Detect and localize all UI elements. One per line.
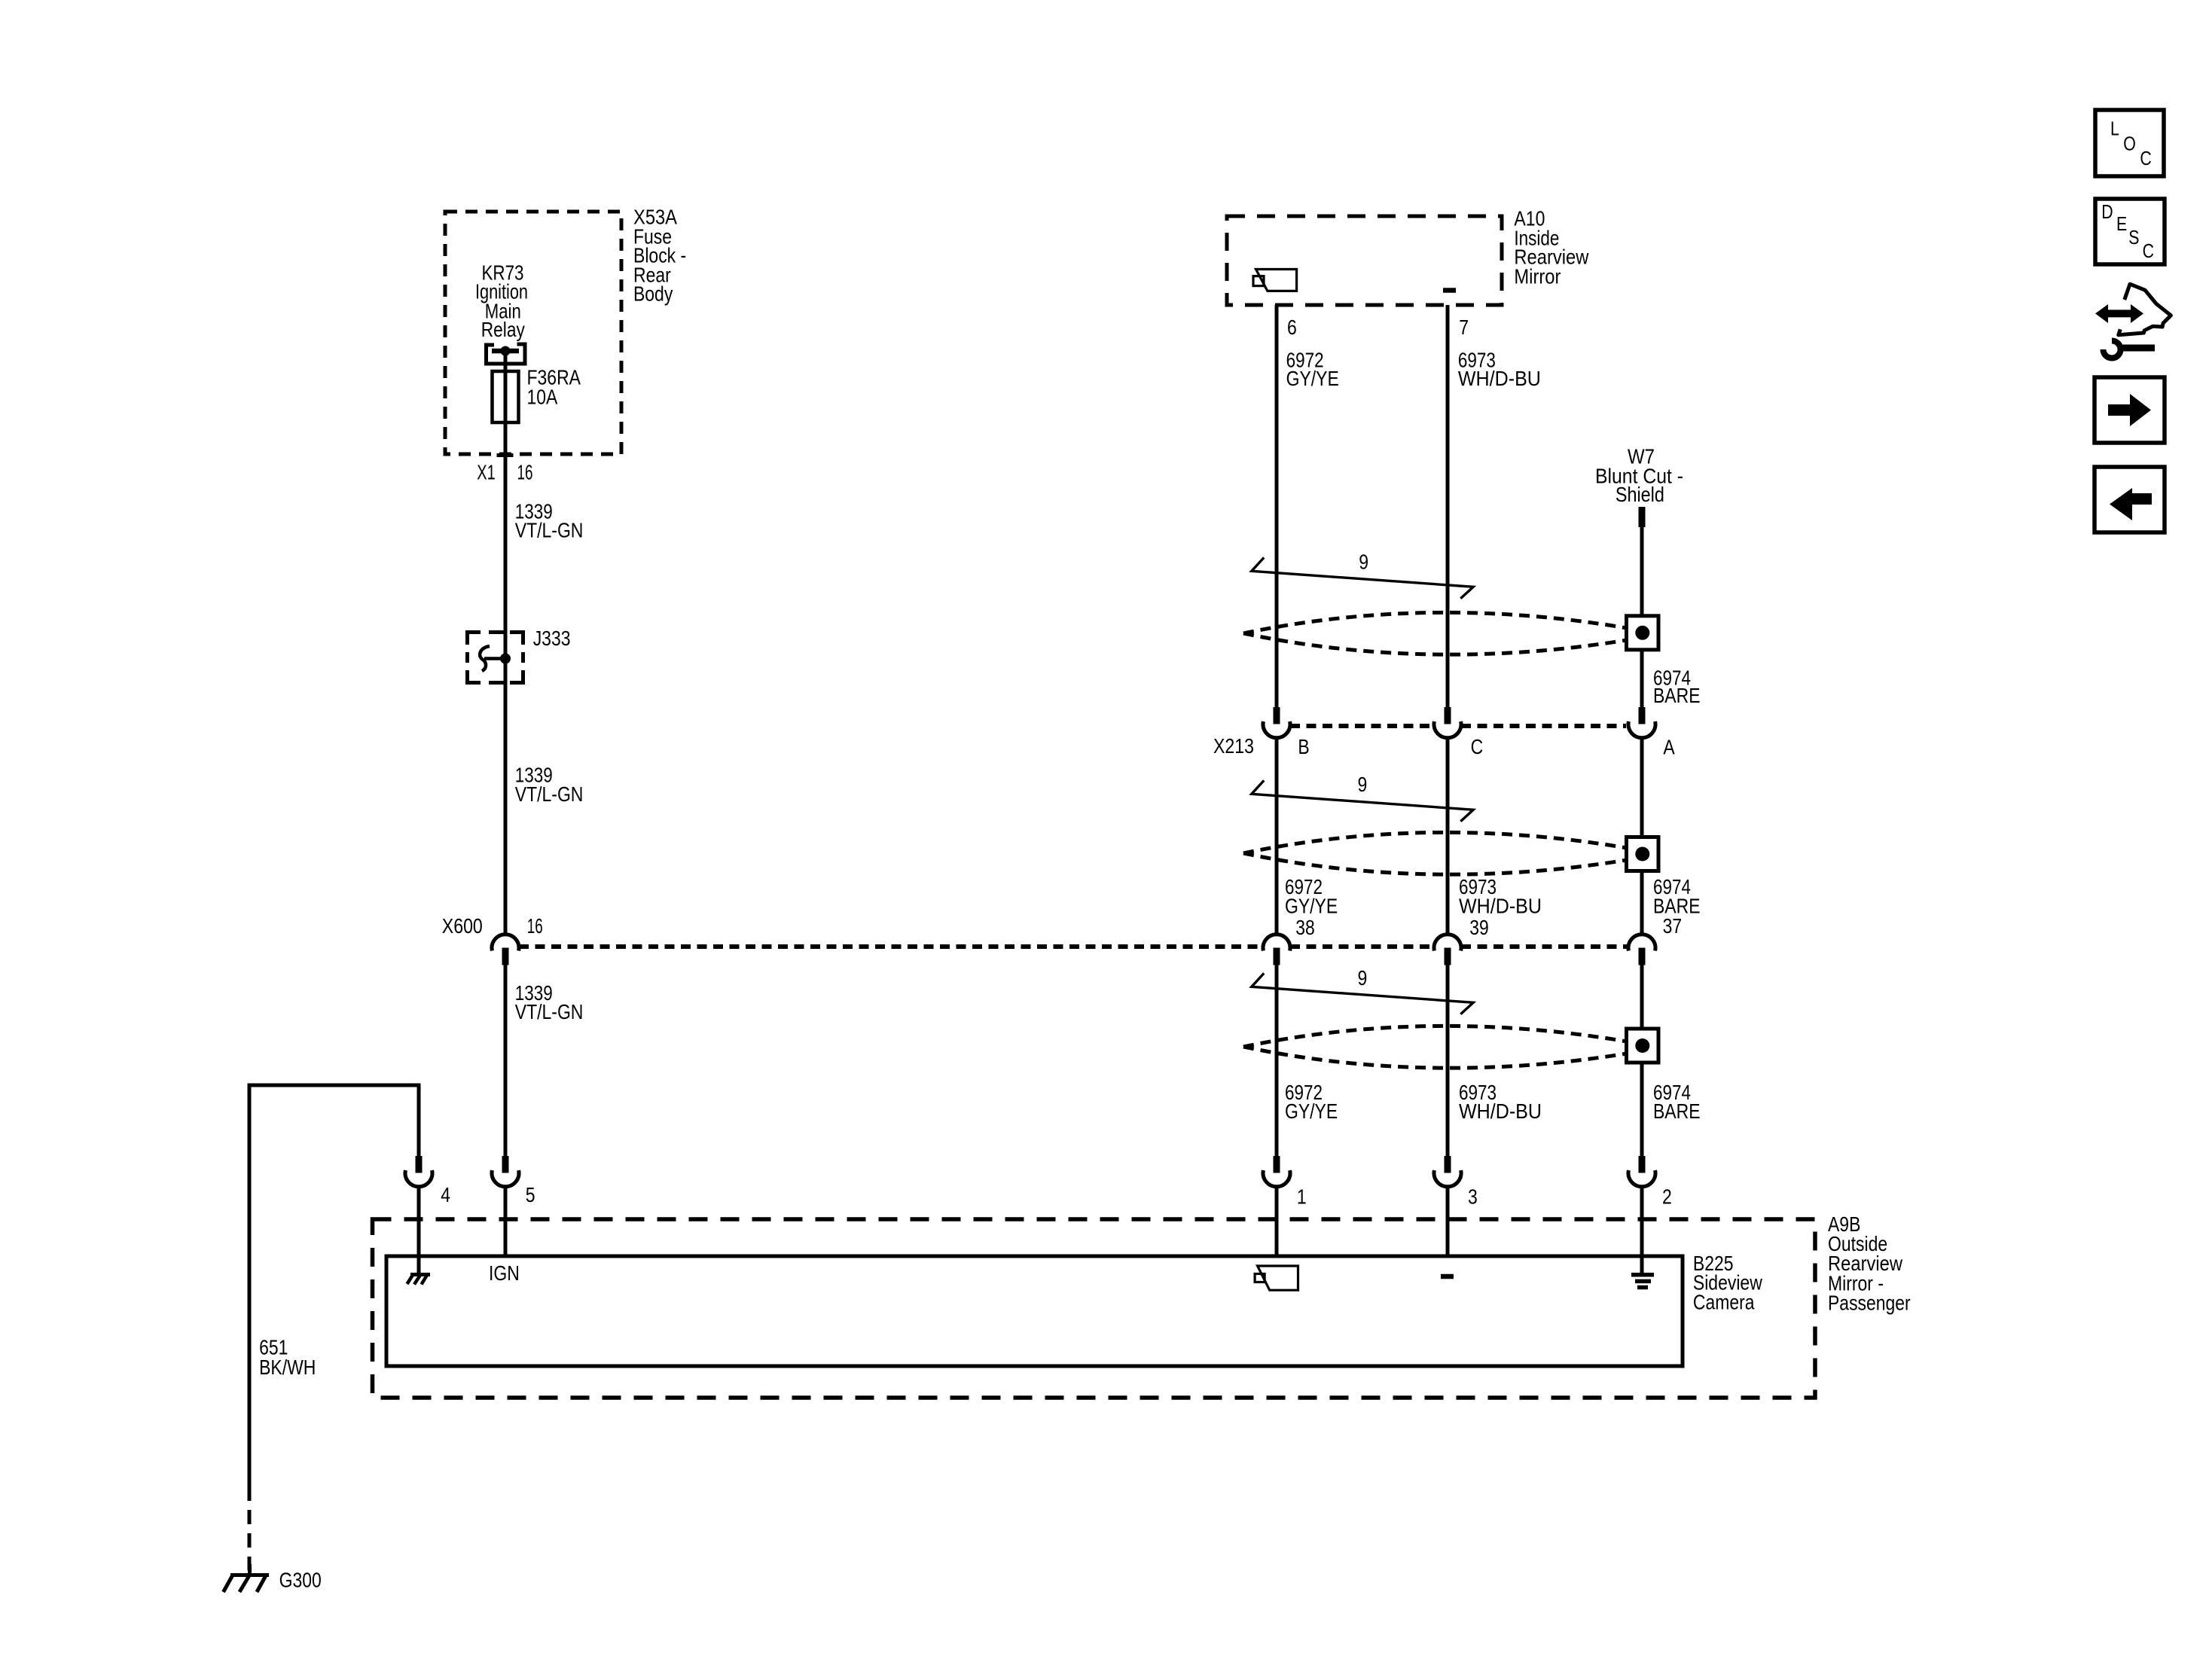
connector X213 pin C	[1434, 707, 1461, 738]
connector pin 1	[1263, 1156, 1290, 1187]
svg-text:1: 1	[1297, 1185, 1307, 1209]
label pin B	[1298, 735, 1309, 758]
svg-text:39: 39	[1469, 916, 1489, 939]
label pin 38	[1295, 916, 1315, 939]
wire pin 3 into B225 minus	[1446, 1188, 1450, 1256]
label twist 9 (bottom)	[1358, 966, 1368, 990]
wire pin 5 into B225 IGN	[504, 1188, 508, 1256]
wire 6973 between X600 and connector 3	[1446, 965, 1450, 1157]
wire 1339 from J333 to X600	[504, 658, 508, 934]
label circuit 6973 WH/D-BU (top)	[1458, 348, 1541, 389]
wire 6972 between X600 and connector 1	[1275, 965, 1279, 1157]
label X1 16	[477, 460, 532, 483]
label pin 39	[1469, 916, 1489, 939]
splice J333 symbol	[480, 646, 511, 671]
chassis ground icon at pin 4	[407, 1275, 431, 1285]
svg-text:X1: X1	[477, 460, 496, 483]
module A10 Inside Rearview Mirror dashed box	[1227, 216, 1502, 305]
svg-text:5: 5	[526, 1183, 535, 1206]
sidebar LOC box	[2095, 110, 2164, 176]
svg-text:VT/L-GN: VT/L-GN	[515, 782, 584, 806]
sidebar next-page arrow box	[2095, 377, 2165, 443]
connector pin 3	[1434, 1156, 1461, 1187]
label B225 Sideview Camera	[1693, 1252, 1763, 1314]
svg-text:S: S	[2128, 226, 2139, 249]
wire 651 BK/WH run from ground to connector 4	[249, 1085, 419, 1487]
connector pin 5	[492, 1156, 519, 1187]
label twist 9 (top)	[1359, 550, 1368, 573]
connector X213 pin B	[1263, 707, 1290, 738]
sidebar DESC box	[2095, 199, 2165, 264]
svg-text:B: B	[1298, 735, 1309, 758]
svg-text:9: 9	[1359, 550, 1368, 573]
svg-text:C: C	[2140, 147, 2151, 169]
svg-text:WH/D-BU: WH/D-BU	[1459, 1099, 1542, 1123]
shield ellipse (middle)	[1243, 832, 1631, 874]
label circuit 6974 BARE (middle)	[1653, 875, 1701, 917]
dashed harness line X600	[519, 944, 1628, 949]
svg-text:IGN: IGN	[489, 1261, 520, 1285]
svg-text:GY/YE: GY/YE	[1285, 1099, 1338, 1123]
label A9B Outside Rearview Mirror - Passenger	[1828, 1212, 1911, 1315]
wire pin 4 into B225 ground	[417, 1188, 421, 1273]
label A10 Inside Rearview Mirror	[1514, 207, 1589, 288]
wire 6973 between X213 and X600	[1446, 739, 1450, 934]
svg-text:X213: X213	[1213, 734, 1254, 758]
label circuit 6973 WH/D-BU (bottom)	[1459, 1081, 1542, 1123]
label pin C	[1471, 735, 1484, 758]
module A9B Outside Rearview Mirror dashed box	[373, 1219, 1816, 1398]
svg-text:Mirror: Mirror	[1514, 264, 1561, 288]
camera icon in A10	[1253, 270, 1297, 291]
wire 1339 from X600 to connector 5	[504, 965, 508, 1157]
shield ellipse (top)	[1243, 612, 1631, 654]
svg-text:9: 9	[1358, 773, 1368, 796]
shield drain connection square (bottom)	[1627, 1029, 1659, 1063]
label G300	[279, 1568, 322, 1591]
shield drain connection square (middle)	[1627, 837, 1659, 871]
svg-text:E: E	[2116, 212, 2127, 235]
twisted pair symbol (bottom)	[1252, 973, 1473, 1014]
wire 6974 between X600 and connector 2	[1640, 965, 1644, 1157]
label pin 2	[1662, 1185, 1672, 1209]
connector pin 2	[1628, 1156, 1655, 1187]
svg-text:16: 16	[517, 460, 533, 483]
minus terminal in A10	[1443, 288, 1456, 293]
wire 6974 between X213 and X600	[1640, 739, 1644, 934]
connector X600 pin 38	[1263, 935, 1290, 965]
svg-text:O: O	[2123, 133, 2136, 155]
svg-text:WH/D-BU: WH/D-BU	[1458, 367, 1541, 390]
svg-text:X600: X600	[442, 914, 483, 938]
wire 6973 WH/D-BU from A10 pin 7 to X213	[1446, 305, 1450, 708]
component B225 Sideview Camera box	[386, 1256, 1683, 1366]
label W7 Blunt Cut - Shield	[1595, 445, 1683, 507]
svg-text:37: 37	[1663, 914, 1683, 938]
svg-text:A: A	[1663, 736, 1675, 759]
label IGN	[489, 1261, 520, 1285]
svg-text:C: C	[2143, 239, 2154, 262]
sidebar previous-page arrow box	[2095, 467, 2165, 532]
blunt cut W7 wire start pin	[1639, 507, 1646, 527]
svg-text:Relay: Relay	[481, 318, 525, 341]
camera icon in B225	[1255, 1266, 1298, 1290]
svg-text:BK/WH: BK/WH	[259, 1356, 316, 1379]
svg-text:Passenger: Passenger	[1828, 1291, 1911, 1314]
wire 1339 from relay through fuse to J333	[504, 351, 508, 658]
label X53A Fuse Block - Rear Body	[633, 206, 686, 306]
twisted pair symbol (middle)	[1252, 780, 1473, 821]
connector X600 pin 16 (dome and pin)	[492, 935, 519, 965]
connector X600 pin 37	[1628, 935, 1655, 965]
label 651 BK/WH	[259, 1336, 316, 1380]
label pin 37	[1663, 914, 1683, 938]
svg-text:Shield: Shield	[1616, 483, 1664, 506]
splice J333 dashed box	[468, 633, 523, 683]
wire 651 dashed section	[248, 1487, 252, 1570]
label wire 1339 VT/L-GN (lower)	[515, 981, 584, 1023]
svg-text:9: 9	[1358, 966, 1368, 990]
label X600 16	[442, 914, 543, 938]
ground G300 symbol	[224, 1564, 270, 1592]
svg-text:VT/L-GN: VT/L-GN	[515, 1000, 584, 1023]
label KR73 Ignition Main Relay	[475, 261, 528, 341]
svg-text:GY/YE: GY/YE	[1286, 367, 1339, 390]
label pin A	[1663, 736, 1675, 759]
svg-text:VT/L-GN: VT/L-GN	[515, 519, 584, 542]
shield ellipse (bottom)	[1243, 1026, 1631, 1068]
svg-text:7: 7	[1459, 316, 1469, 339]
relay KR73 contact symbol	[487, 344, 526, 364]
wire pin 2 into B225 shield ground	[1640, 1188, 1644, 1273]
label wire 1339 VT/L-GN (middle)	[515, 764, 584, 806]
label X213	[1213, 734, 1254, 758]
label circuit 6972 GY/YE (middle)	[1285, 875, 1338, 917]
svg-text:L: L	[2110, 117, 2119, 139]
label circuit 6972 GY/YE (top)	[1286, 348, 1339, 389]
earth ground icon at pin 2	[1631, 1275, 1654, 1288]
label circuit 6974 BARE (top)	[1653, 666, 1701, 708]
label circuit 6972 GY/YE (bottom)	[1285, 1081, 1338, 1123]
sidebar harness-repair icon (double arrow, outline, wrench)	[2095, 284, 2171, 358]
minus terminal in B225	[1441, 1274, 1454, 1279]
label wire 1339 VT/L-GN (upper)	[515, 499, 584, 541]
svg-text:10A: 10A	[527, 386, 558, 409]
connector pin 4	[405, 1156, 432, 1187]
fuse block X53A dashed box	[445, 212, 621, 454]
svg-text:4: 4	[441, 1183, 450, 1206]
label pin 7	[1459, 316, 1469, 339]
label circuit 6974 BARE (bottom)	[1653, 1081, 1701, 1123]
connector X1 pin 16 tick	[497, 453, 514, 457]
shield drain connection square (top)	[1627, 616, 1659, 650]
svg-text:J333: J333	[533, 627, 571, 650]
svg-text:16: 16	[527, 914, 543, 938]
connector X600 pin 39	[1434, 935, 1461, 965]
svg-text:C: C	[1471, 735, 1484, 758]
svg-text:WH/D-BU: WH/D-BU	[1459, 894, 1542, 917]
label twist 9 (middle)	[1358, 773, 1368, 796]
label pin 5	[526, 1183, 535, 1206]
svg-text:3: 3	[1468, 1185, 1478, 1209]
svg-text:38: 38	[1295, 916, 1315, 939]
svg-text:D: D	[2101, 200, 2113, 223]
label pin 3	[1468, 1185, 1478, 1209]
svg-text:BARE: BARE	[1653, 684, 1701, 707]
label F36RA 10A	[527, 366, 581, 409]
wire pin 1 into B225 camera	[1275, 1188, 1279, 1256]
svg-text:BARE: BARE	[1653, 1099, 1701, 1123]
svg-text:GY/YE: GY/YE	[1285, 894, 1338, 917]
connector X213 pin A	[1628, 707, 1655, 738]
dashed harness line X213	[1290, 724, 1626, 728]
svg-text:Camera: Camera	[1693, 1291, 1755, 1314]
twisted pair symbol (top)	[1252, 557, 1473, 598]
svg-text:6: 6	[1287, 316, 1297, 339]
label circuit 6973 WH/D-BU (middle)	[1459, 875, 1542, 917]
fuse F36RA 10A	[493, 371, 519, 422]
svg-text:G300: G300	[279, 1568, 322, 1591]
label pin 6	[1287, 316, 1297, 339]
svg-text:Body: Body	[633, 282, 673, 306]
label pin 1	[1297, 1185, 1307, 1209]
wire 6974 BARE shield drain from W7 to X213	[1640, 527, 1644, 708]
label J333	[533, 627, 571, 650]
svg-text:2: 2	[1662, 1185, 1672, 1209]
wire 6972 GY/YE from A10 pin 6 to X213	[1275, 305, 1279, 708]
label pin 4	[441, 1183, 450, 1206]
wire 6972 between X213 and X600	[1275, 739, 1279, 934]
